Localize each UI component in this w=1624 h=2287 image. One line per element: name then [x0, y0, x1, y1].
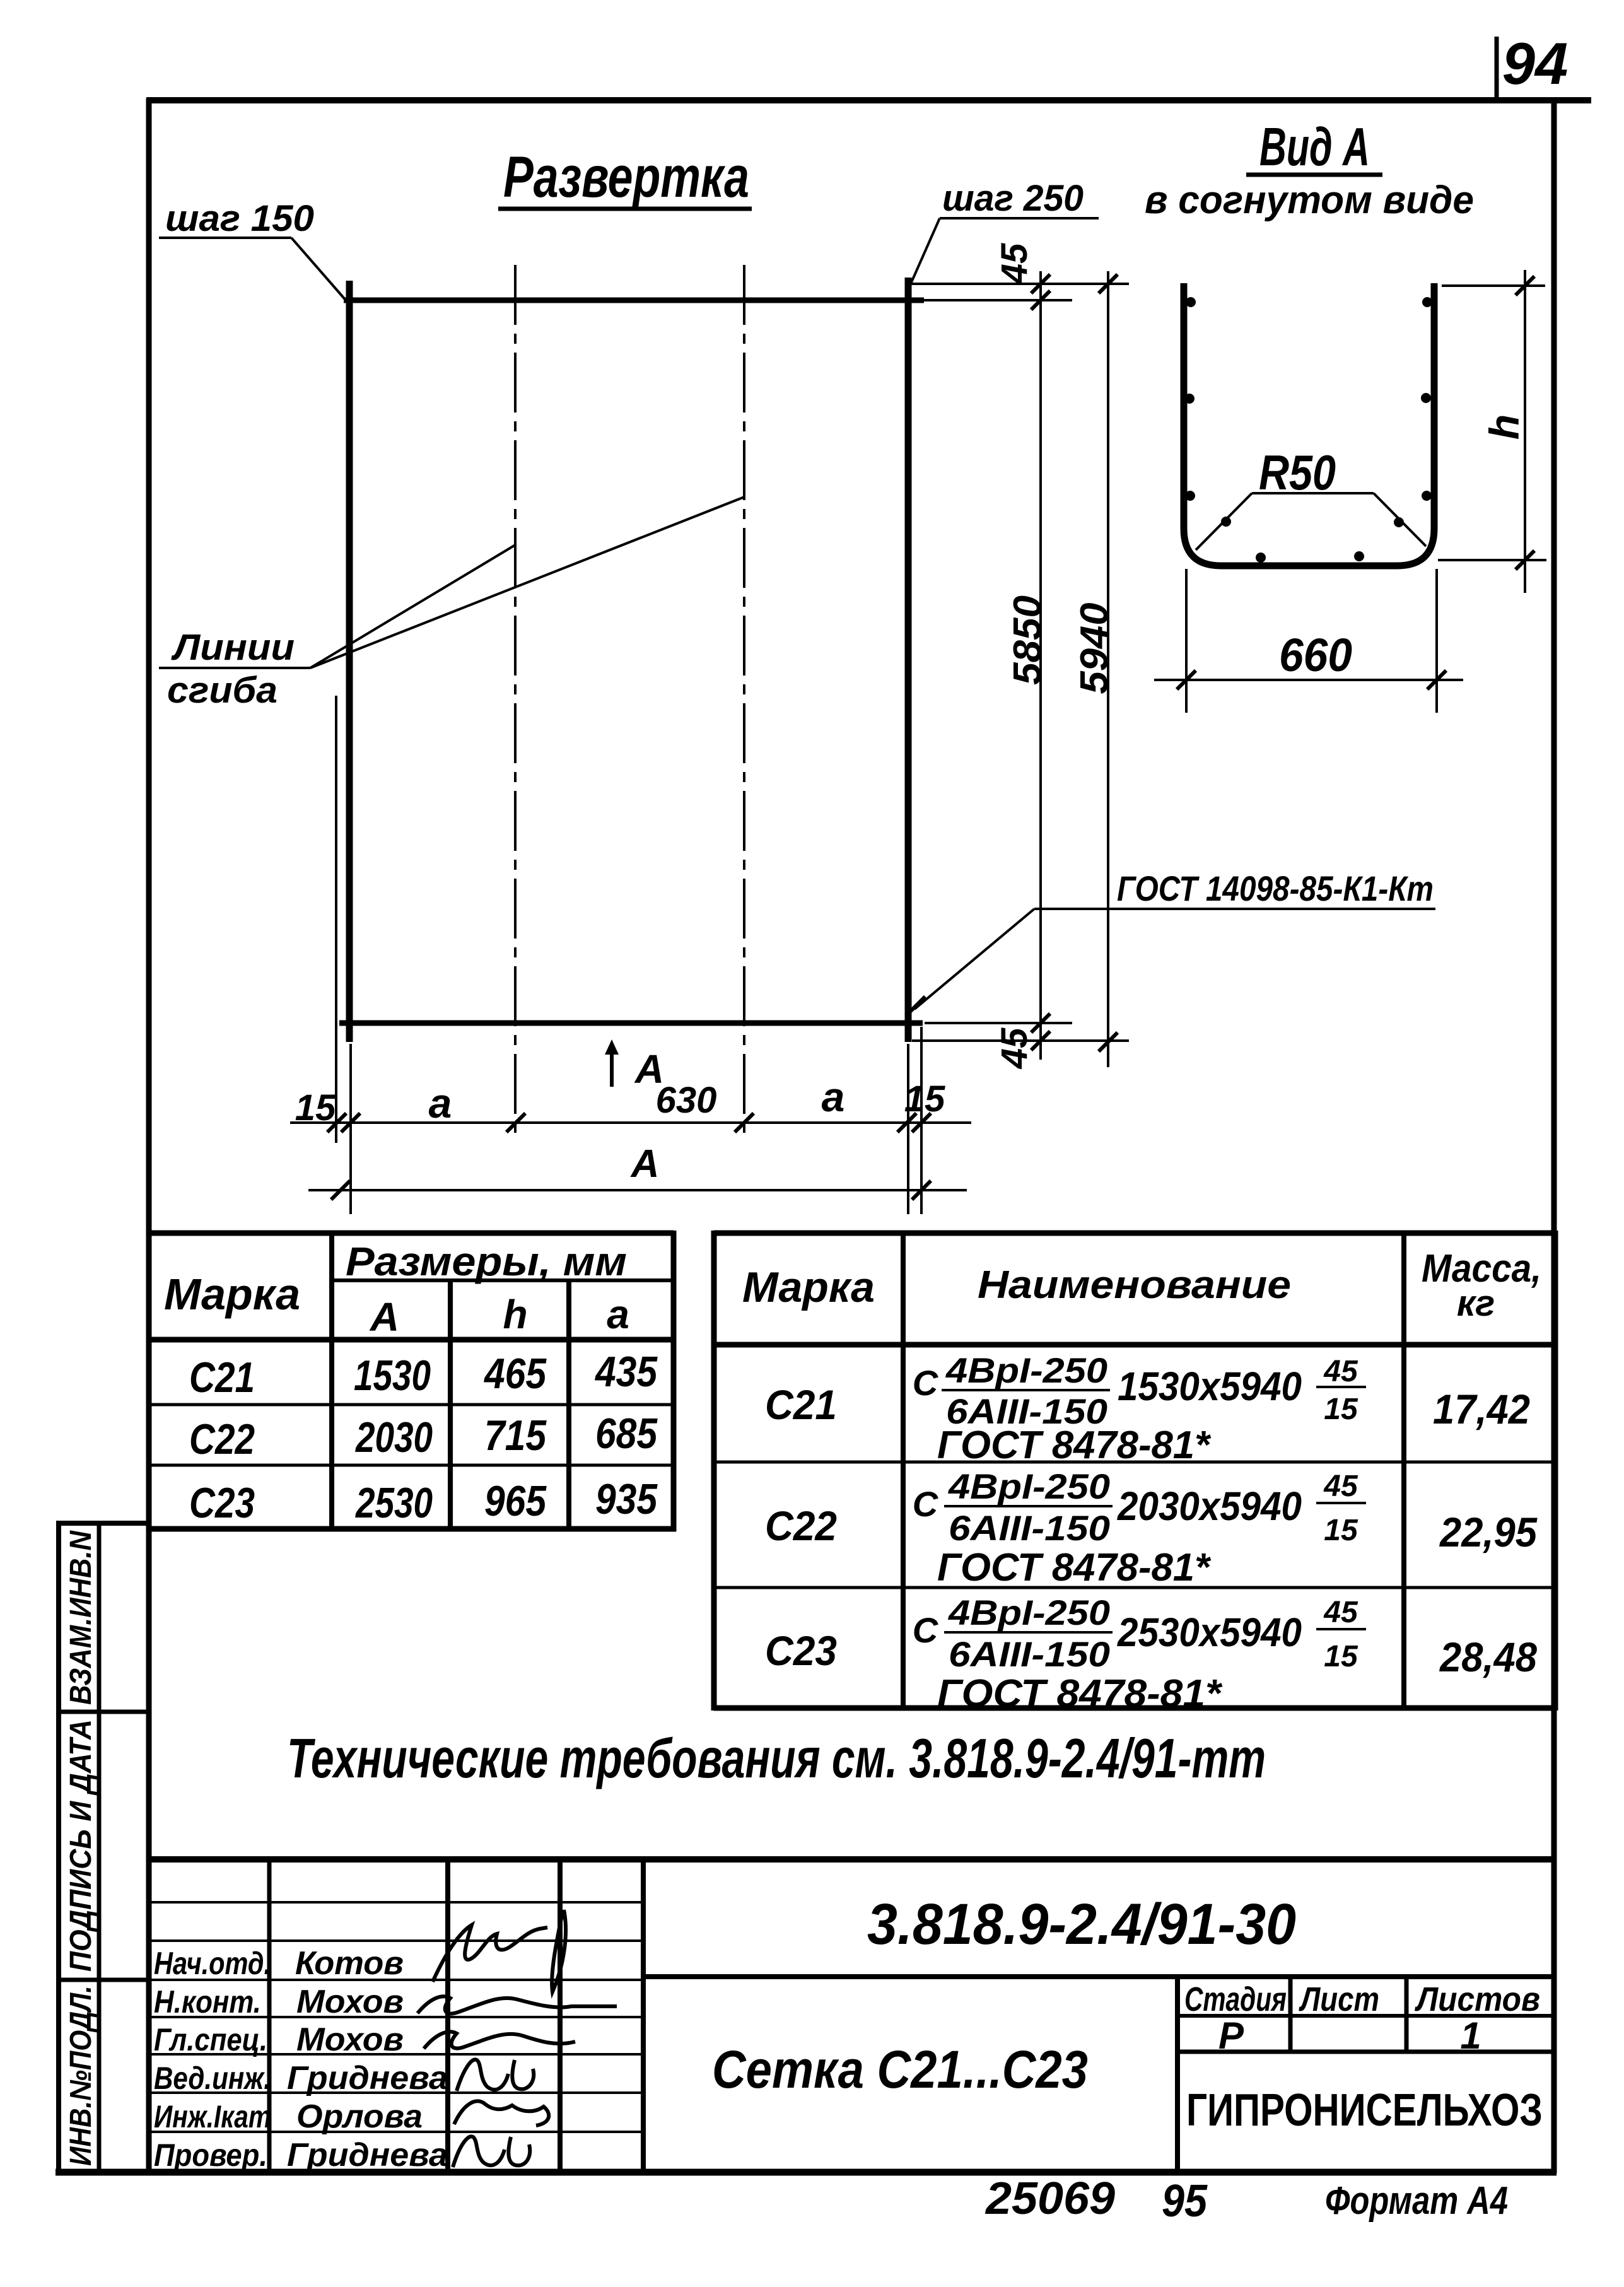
svg-text:ВЗАМ.ИНВ.N: ВЗАМ.ИНВ.N: [64, 1530, 98, 1705]
svg-text:Лист: Лист: [1299, 1980, 1379, 2018]
svg-text:Стадия: Стадия: [1184, 1980, 1287, 2018]
dimension 45 top: [911, 243, 1129, 310]
svg-text:Гриднева: Гриднева: [287, 2060, 448, 2097]
dimension h vertical: [1438, 270, 1546, 593]
svg-text:а: а: [607, 1292, 629, 1337]
signature rows roles: [154, 1946, 271, 2173]
signature rows names: [287, 1945, 448, 2173]
svg-text:R50: R50: [1259, 445, 1336, 500]
section arrow A: [605, 1039, 664, 1092]
stage table headers: [1184, 1980, 1540, 2057]
svg-text:Провер.: Провер.: [154, 2138, 267, 2173]
weld label ГОСТ 14098-85-К1-Кт with leader: [906, 869, 1435, 1015]
signature squiggle Гриднева 2: [453, 2136, 530, 2167]
svg-text:Линии: Линии: [171, 627, 295, 668]
svg-text:С: С: [913, 1610, 939, 1650]
signature squiggle Мохов 1: [418, 1996, 617, 2013]
left sheet edge extension line: [335, 696, 337, 1143]
svg-text:Размеры, мм: Размеры, мм: [346, 1239, 627, 1284]
svg-text:шаг 250: шаг 250: [942, 178, 1084, 219]
svg-text:ИНВ.№ПОДЛ.: ИНВ.№ПОДЛ.: [64, 1986, 98, 2166]
bottom annotation 25069 95: [984, 2173, 1208, 2226]
svg-text:в согнутом виде: в согнутом виде: [1145, 178, 1474, 222]
svg-text:965: 965: [484, 1477, 547, 1525]
svg-text:4ВрI-250: 4ВрI-250: [945, 1350, 1107, 1390]
svg-text:С21: С21: [765, 1381, 837, 1428]
svg-text:Наименование: Наименование: [978, 1263, 1291, 1307]
title Развертка: [498, 145, 752, 209]
svg-text:А: А: [630, 1142, 660, 1186]
left table row С23: [189, 1475, 658, 1527]
svg-text:Вид А: Вид А: [1259, 117, 1370, 177]
svg-text:45: 45: [994, 243, 1035, 284]
fold line 1 dash-dot: [514, 265, 517, 1135]
svg-text:15: 15: [295, 1087, 336, 1128]
signature squiggle Мохов 2: [424, 2032, 575, 2049]
svg-text:Мохов: Мохов: [296, 1984, 404, 2020]
svg-text:ГОСТ 14098-85-К1-Кт: ГОСТ 14098-85-К1-Кт: [1117, 869, 1434, 908]
signature squiggle Орлова: [454, 2101, 549, 2126]
svg-text:шаг 150: шаг 150: [165, 198, 314, 239]
svg-text:15: 15: [1324, 1393, 1358, 1426]
svg-text:кг: кг: [1457, 1283, 1495, 1324]
svg-text:17,42: 17,42: [1433, 1386, 1530, 1432]
svg-text:15: 15: [1324, 1640, 1358, 1673]
dimension 45 bottom: [912, 1014, 1129, 1069]
svg-text:2530: 2530: [354, 1479, 433, 1527]
overall dimension A: [308, 1142, 967, 1200]
svg-text:Нач.отд.: Нач.отд.: [154, 1946, 271, 1981]
svg-text:ПОДПИСЬ И ДАТА: ПОДПИСЬ И ДАТА: [64, 1719, 98, 1972]
title block grid: [149, 1859, 1554, 2172]
left table Марка/Размеры grid: [146, 1231, 676, 1531]
svg-text:Развертка: Развертка: [503, 145, 749, 209]
svg-text:Гл.спец.: Гл.спец.: [154, 2022, 267, 2057]
right table row С23: [765, 1593, 1537, 1716]
svg-text:Н.конт.: Н.конт.: [154, 1984, 261, 2020]
label R50 with leaders: [1196, 445, 1426, 550]
svg-text:Марка: Марка: [164, 1270, 300, 1319]
svg-text:Котов: Котов: [295, 1945, 404, 1982]
left table header texts: [164, 1239, 629, 1340]
label шаг 150 with leader: [159, 198, 347, 301]
longitudinal wire dots: [1184, 297, 1432, 563]
fold line 2 dash-dot: [743, 265, 745, 1135]
svg-text:5850: 5850: [1006, 595, 1049, 685]
svg-text:С23: С23: [189, 1479, 255, 1527]
svg-text:45: 45: [1323, 1596, 1358, 1629]
right table row С22: [765, 1466, 1538, 1589]
svg-text:1530: 1530: [354, 1352, 431, 1400]
svg-text:45: 45: [1323, 1470, 1358, 1503]
svg-text:45: 45: [1323, 1355, 1358, 1388]
left table row С22: [189, 1410, 658, 1463]
svg-text:94: 94: [1502, 30, 1569, 97]
svg-text:С21: С21: [189, 1354, 255, 1401]
svg-text:5940: 5940: [1073, 603, 1116, 694]
svg-text:2030: 2030: [354, 1413, 433, 1461]
svg-text:6АIII-150: 6АIII-150: [949, 1508, 1110, 1548]
svg-text:1530х5940: 1530х5940: [1118, 1364, 1302, 1409]
sheet page number 94: [1497, 30, 1568, 100]
svg-text:h: h: [1481, 414, 1528, 440]
signature squiggle Гриднева 1: [457, 2059, 534, 2091]
svg-text:465: 465: [483, 1350, 547, 1398]
bottom dimension chain 15 a 630 a 15: [290, 1027, 971, 1214]
svg-text:435: 435: [594, 1348, 658, 1396]
svg-text:Р: Р: [1218, 2015, 1244, 2057]
svg-text:a: a: [822, 1073, 845, 1120]
mesh top edge wire: [344, 298, 924, 303]
svg-text:15: 15: [1324, 1514, 1358, 1547]
svg-text:660: 660: [1279, 629, 1352, 681]
svg-text:45: 45: [994, 1027, 1035, 1069]
svg-text:h: h: [503, 1292, 527, 1337]
left table row С21: [189, 1348, 658, 1401]
svg-text:Вед.инж.: Вед.инж.: [154, 2061, 271, 2096]
svg-text:22,95: 22,95: [1439, 1509, 1538, 1555]
svg-text:4ВрI-250: 4ВрI-250: [948, 1593, 1110, 1632]
svg-text:28,48: 28,48: [1439, 1634, 1537, 1680]
svg-text:ГОСТ 8478-81*: ГОСТ 8478-81*: [937, 1672, 1223, 1716]
svg-text:Формат А4: Формат А4: [1325, 2179, 1508, 2223]
label шаг 250 with leader: [911, 178, 1099, 284]
mesh left edge bar: [346, 281, 353, 1042]
svg-text:ГИПРОНИСЕЛЬХОЗ: ГИПРОНИСЕЛЬХОЗ: [1186, 2085, 1543, 2136]
dimension line 5850: [1006, 271, 1049, 1060]
svg-text:a: a: [429, 1080, 452, 1126]
svg-text:ГОСТ 8478-81*: ГОСТ 8478-81*: [937, 1424, 1212, 1467]
svg-text:2030х5940: 2030х5940: [1117, 1483, 1302, 1529]
svg-text:630: 630: [656, 1080, 717, 1121]
svg-text:Сетка С21...С23: Сетка С21...С23: [712, 2040, 1088, 2099]
svg-text:ГОСТ 8478-81*: ГОСТ 8478-81*: [937, 1546, 1212, 1589]
svg-text:С22: С22: [765, 1502, 837, 1549]
dimension line 5940: [1073, 271, 1118, 1067]
right table row С21: [765, 1350, 1530, 1467]
svg-text:Орлова: Орлова: [296, 2098, 423, 2135]
right table header texts: [742, 1247, 1541, 1324]
svg-text:С23: С23: [765, 1627, 837, 1674]
title Вид А: [1246, 117, 1382, 177]
svg-text:С: С: [913, 1484, 939, 1524]
left margin stamp boxes: [56, 1523, 149, 2172]
right table Марка/Наименование/Масса grid: [714, 1231, 1555, 1711]
svg-text:С: С: [913, 1363, 939, 1403]
dimension 660: [1154, 569, 1463, 713]
svg-text:Листов: Листов: [1414, 1980, 1540, 2018]
svg-text:1: 1: [1460, 2015, 1481, 2057]
svg-text:2530х5940: 2530х5940: [1117, 1610, 1302, 1655]
signature squiggle Котов: [433, 1910, 566, 1992]
mesh bottom edge wire: [339, 1021, 923, 1026]
svg-text:4ВрI-250: 4ВрI-250: [948, 1466, 1110, 1506]
svg-text:Технические требования см. 3.8: Технические требования см. 3.818.9-2.4/9…: [287, 1727, 1266, 1789]
svg-text:715: 715: [484, 1412, 547, 1459]
svg-text:15: 15: [904, 1079, 945, 1120]
svg-text:Мохов: Мохов: [296, 2021, 404, 2058]
svg-text:сгиба: сгиба: [167, 670, 277, 711]
svg-text:3.818.9-2.4/91-30: 3.818.9-2.4/91-30: [867, 1892, 1296, 1957]
svg-text:С22: С22: [189, 1415, 255, 1463]
svg-text:685: 685: [595, 1410, 658, 1458]
svg-text:А: А: [369, 1294, 399, 1340]
label Линии сгиба with leaders: [159, 497, 744, 711]
svg-text:25069: 25069: [984, 2173, 1115, 2224]
svg-text:95: 95: [1162, 2176, 1208, 2226]
svg-text:Марка: Марка: [742, 1263, 875, 1311]
mesh right edge bar: [905, 278, 912, 1042]
svg-text:Гриднева: Гриднева: [287, 2137, 448, 2173]
svg-text:6АIII-150: 6АIII-150: [949, 1634, 1110, 1674]
bent mesh U-shaped outline: [1184, 283, 1434, 566]
svg-text:Инж.Iкат: Инж.Iкат: [154, 2099, 271, 2134]
svg-text:935: 935: [595, 1475, 658, 1523]
